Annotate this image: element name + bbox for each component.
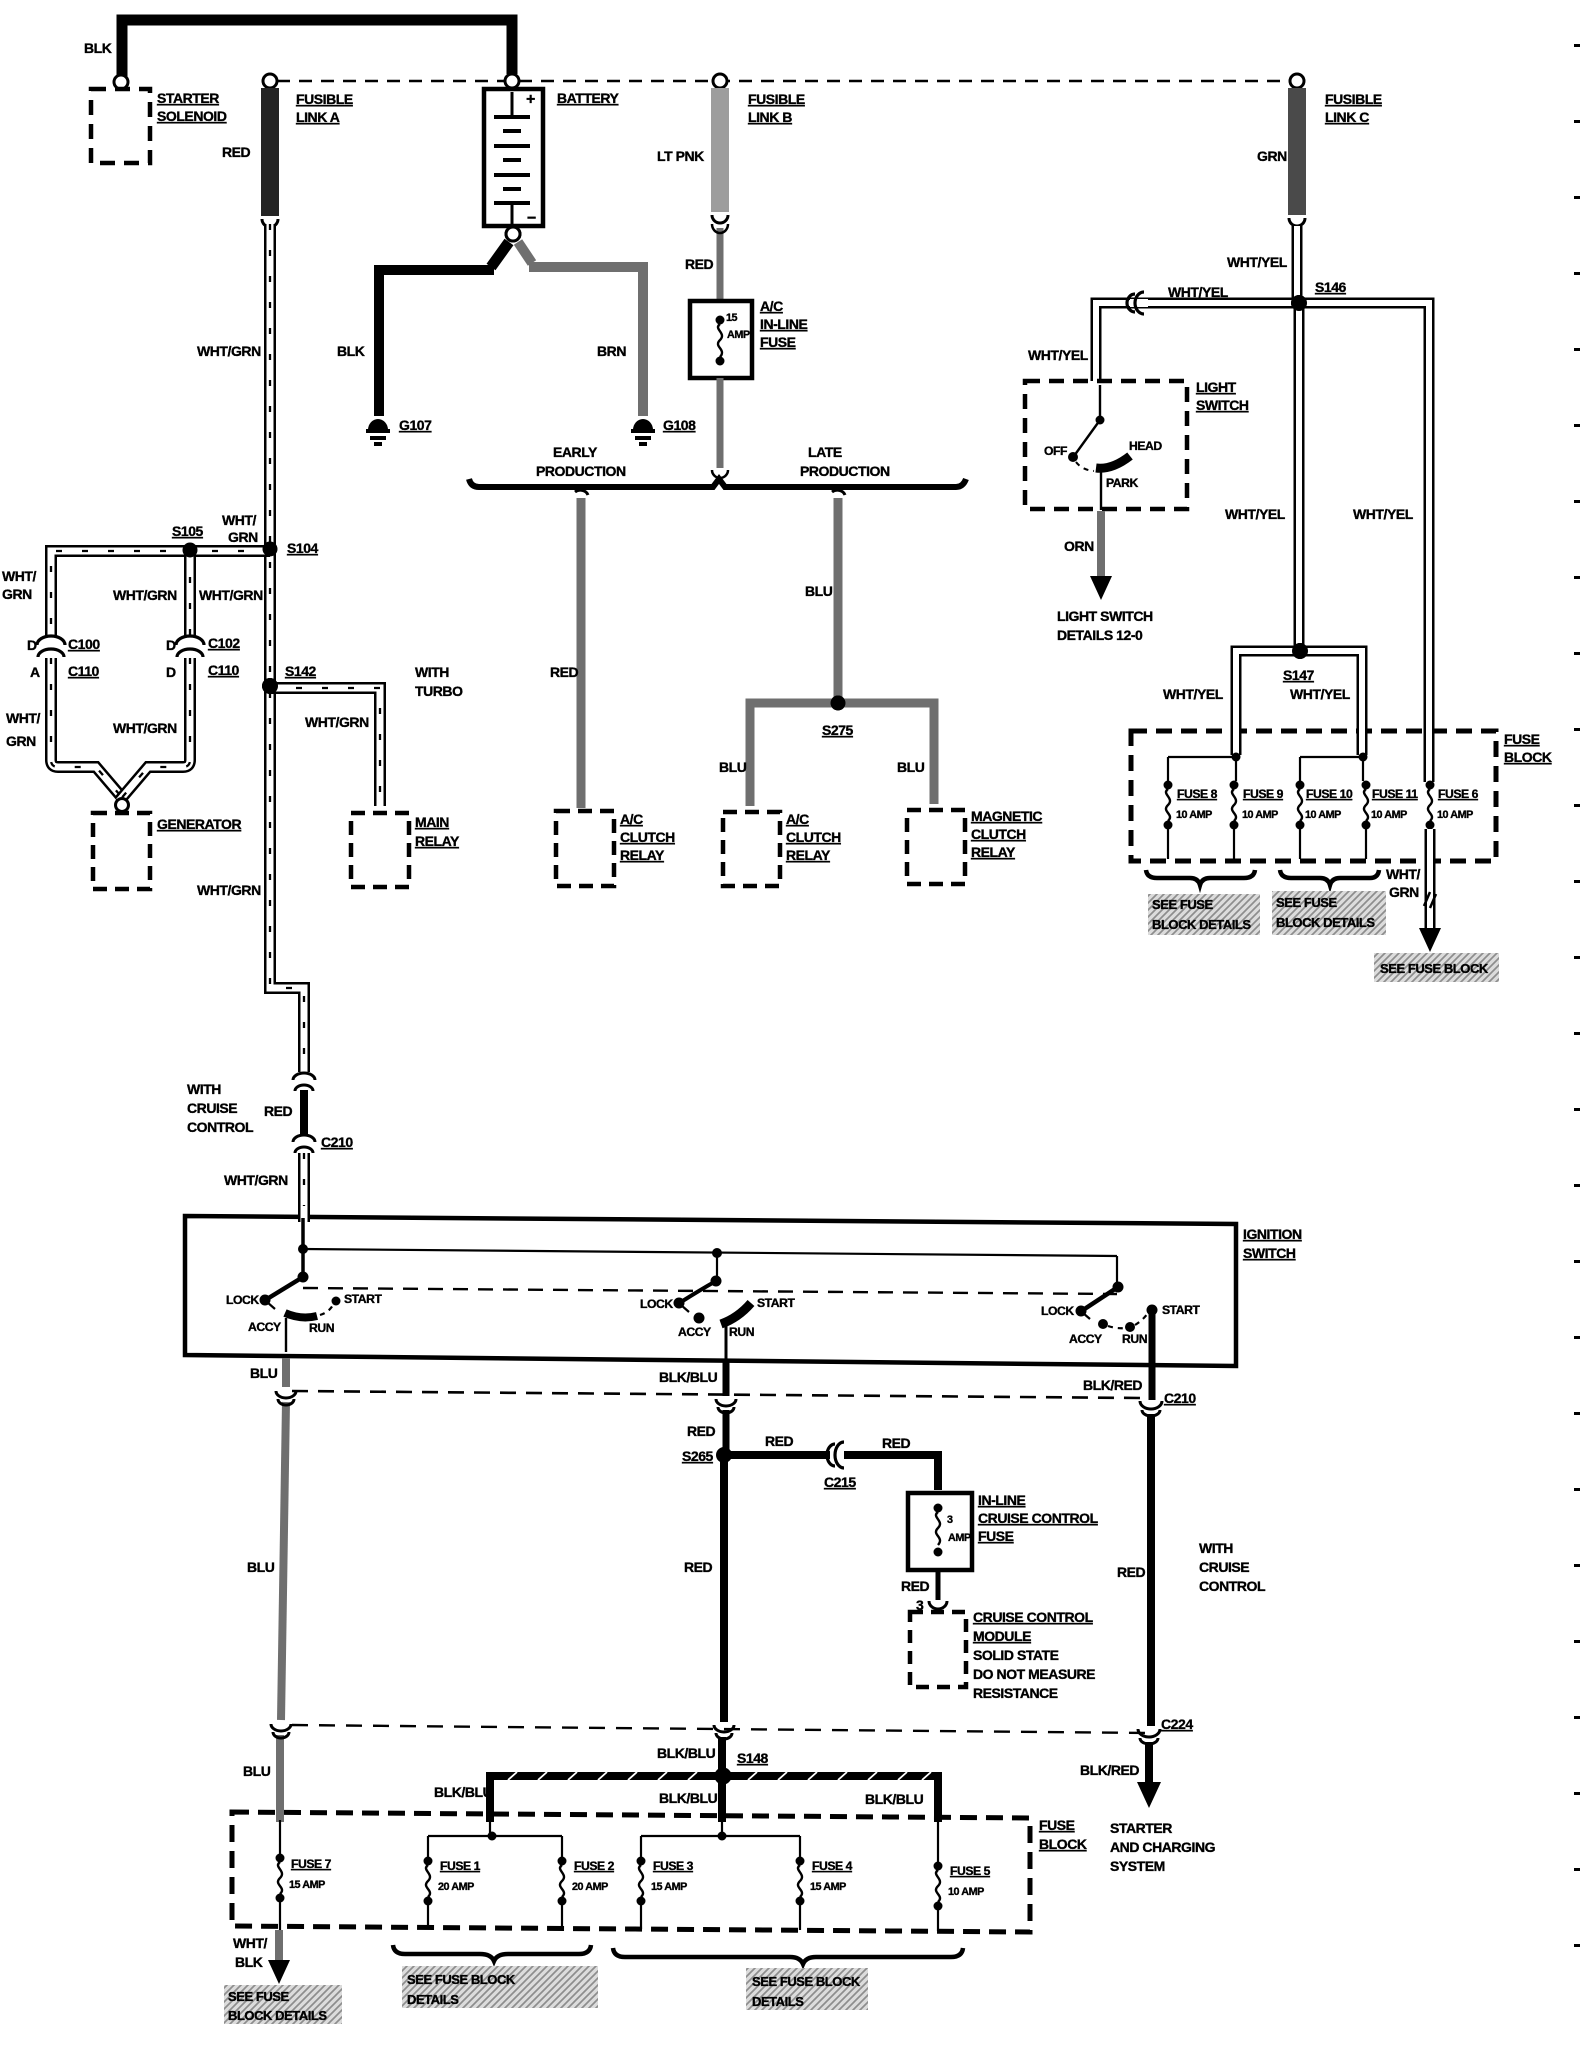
- svg-text:LINK B: LINK B: [748, 109, 792, 125]
- wire WHT/YEL link C down to S146: [1296, 226, 1298, 303]
- node S142: [262, 678, 278, 694]
- wire BLU S275 to magnetic clutch relay: [838, 703, 934, 804]
- svg-text:BLU: BLU: [719, 759, 747, 775]
- svg-text:WHT/: WHT/: [1386, 866, 1421, 882]
- connector C215: [827, 1442, 844, 1468]
- wire A/C fuse down to production bus: [717, 378, 724, 468]
- ignition switch 1 (left): [260, 1218, 341, 1352]
- light switch contacts: [1068, 385, 1130, 510]
- svg-text:LINK A: LINK A: [296, 109, 340, 125]
- svg-text:GRN: GRN: [228, 529, 258, 545]
- svg-text:RELAY: RELAY: [620, 847, 665, 863]
- svg-text:LINK C: LINK C: [1325, 109, 1369, 125]
- svg-text:STARTER: STARTER: [157, 90, 219, 106]
- svg-text:LOCK: LOCK: [1041, 1304, 1074, 1318]
- svg-text:S104: S104: [287, 540, 319, 556]
- svg-text:C210: C210: [321, 1134, 353, 1150]
- connector C210 (upper): [293, 1135, 315, 1153]
- svg-text:FUSE 10: FUSE 10: [1306, 787, 1353, 801]
- A/C in-line fuse: [690, 301, 752, 378]
- svg-text:15 AMP: 15 AMP: [289, 1879, 325, 1891]
- connector C102/C110 (right): [176, 636, 204, 657]
- svg-text:FUSE 9: FUSE 9: [1243, 787, 1284, 801]
- svg-text:BLOCK DETAILS: BLOCK DETAILS: [1276, 915, 1375, 930]
- wire WHT/GRN entry over box edge: [303, 1206, 305, 1222]
- svg-text:BLOCK: BLOCK: [1039, 1836, 1087, 1852]
- svg-text:LIGHT: LIGHT: [1196, 379, 1237, 395]
- svg-text:C215: C215: [824, 1474, 856, 1490]
- svg-text:SOLID STATE: SOLID STATE: [973, 1647, 1059, 1663]
- svg-text:START: START: [757, 1296, 795, 1310]
- svg-text:CLUTCH: CLUTCH: [971, 826, 1026, 842]
- ignition switch 2 (middle): [674, 1248, 752, 1360]
- starter solenoid: [91, 89, 150, 163]
- fuse 7: [276, 1820, 285, 1930]
- svg-text:FUSE: FUSE: [760, 334, 796, 350]
- svg-text:STARTER: STARTER: [1110, 1820, 1172, 1836]
- wire feed fuse 1 and fuse 2: [428, 1818, 562, 1857]
- node S142 (overlay): [262, 678, 278, 694]
- node S265: [716, 1447, 732, 1463]
- svg-text:SEE FUSE BLOCK: SEE FUSE BLOCK: [407, 1972, 516, 1987]
- svg-text:WHT/YEL: WHT/YEL: [1225, 506, 1286, 522]
- node S105: [183, 543, 198, 558]
- svg-text:BRN: BRN: [597, 343, 626, 359]
- svg-text:BLK/BLU: BLK/BLU: [434, 1784, 493, 1800]
- svg-text:20 AMP: 20 AMP: [438, 1881, 474, 1893]
- connector break on WHT/YEL horizontal: [1127, 292, 1148, 314]
- light switch box: [1025, 381, 1187, 509]
- svg-text:A/C: A/C: [760, 298, 783, 314]
- svg-text:WITH: WITH: [415, 664, 449, 680]
- fuse 6: [1426, 781, 1435, 830]
- wire BLK/BLU S148 down to fuses 3-4: [718, 1776, 726, 1816]
- svg-text:EARLY: EARLY: [553, 444, 598, 460]
- svg-text:RUN: RUN: [309, 1321, 334, 1335]
- connector break on RED at C224 line: [714, 1725, 734, 1739]
- svg-text:RUN: RUN: [1122, 1332, 1147, 1346]
- fuse 4: [796, 1857, 805, 1931]
- wire RED S265 to C215 to in-line fuse: [724, 1455, 938, 1490]
- wire WHT/GRN S104 to S105 to C100 loop left branch: [51, 551, 270, 636]
- wire ignition internal dashed line: [303, 1288, 1117, 1294]
- wire feed fuse 5: [937, 1818, 939, 1862]
- svg-text:DETAILS: DETAILS: [407, 1992, 459, 2007]
- wire WHT/GRN S105 down to C102: [189, 551, 191, 636]
- svg-text:15 AMP: 15 AMP: [651, 1881, 687, 1893]
- wire WHT/GRN S142 to main relay: [270, 688, 380, 806]
- svg-text:C102: C102: [208, 635, 240, 651]
- svg-text:WHT/GRN: WHT/GRN: [113, 587, 177, 603]
- connector break on BLK/RED at C224 line: [1138, 1729, 1160, 1744]
- svg-text:LT PNK: LT PNK: [657, 148, 704, 164]
- svg-text:FUSE 8: FUSE 8: [1177, 787, 1218, 801]
- svg-text:BLK: BLK: [235, 1954, 263, 1970]
- node fusible link C terminal: [1290, 74, 1304, 88]
- svg-text:RED: RED: [684, 1559, 713, 1575]
- svg-text:IN-LINE: IN-LINE: [978, 1492, 1026, 1508]
- wire BLK/RED ignition switch 3 output: [1137, 1310, 1161, 1808]
- wire WHT/BLK fuse 7 output arrow: [268, 1930, 290, 1984]
- svg-text:AND CHARGING: AND CHARGING: [1110, 1839, 1216, 1855]
- svg-text:WHT/YEL: WHT/YEL: [1290, 686, 1351, 702]
- svg-text:RED: RED: [550, 664, 579, 680]
- svg-text:20 AMP: 20 AMP: [572, 1881, 608, 1893]
- wire WHT/GRN fusible link A down to S104 and main run with jog: [270, 224, 304, 1072]
- svg-text:GRN: GRN: [1389, 884, 1419, 900]
- svg-text:CLUTCH: CLUTCH: [620, 829, 675, 845]
- wire BLK top feed (starter solenoid to battery): [122, 20, 512, 77]
- wire WHT/GRN C110 down to generator (left): [51, 658, 125, 801]
- svg-text:WHT/GRN: WHT/GRN: [224, 1172, 288, 1188]
- shaded note SEE FUSE BLOCK DETAILS (fuse 7): [224, 1985, 342, 2024]
- ignition switch box: [185, 1216, 1236, 1366]
- svg-text:WHT/GRN: WHT/GRN: [113, 720, 177, 736]
- svg-text:CRUISE: CRUISE: [187, 1100, 237, 1116]
- svg-text:BLOCK DETAILS: BLOCK DETAILS: [228, 2008, 327, 2023]
- svg-text:LIGHT SWITCH: LIGHT SWITCH: [1057, 608, 1153, 624]
- node S148 (overlay): [715, 1768, 732, 1785]
- svg-text:FUSE 5: FUSE 5: [950, 1864, 991, 1878]
- wire BLK/BLU S148 right branch to fuse 5: [723, 1772, 938, 1816]
- svg-text:CONTROL: CONTROL: [187, 1119, 254, 1135]
- shaded note SEE FUSE BLOCK DETAILS (fuses 1-2): [402, 1966, 598, 2008]
- svg-text:SWITCH: SWITCH: [1243, 1245, 1296, 1261]
- svg-text:CRUISE CONTROL: CRUISE CONTROL: [973, 1609, 1094, 1625]
- svg-text:BLK/BLU: BLK/BLU: [657, 1745, 716, 1761]
- svg-text:AMP: AMP: [727, 329, 750, 341]
- svg-text:FUSE 11: FUSE 11: [1372, 787, 1418, 801]
- svg-text:3: 3: [947, 1514, 953, 1526]
- wire RED fuse to cruise control module: [936, 1570, 941, 1600]
- svg-text:WITH: WITH: [187, 1081, 221, 1097]
- svg-text:G107: G107: [399, 417, 432, 433]
- svg-text:ORN: ORN: [1064, 538, 1094, 554]
- wire production bus: [469, 479, 966, 487]
- wire feed fuse 10 and fuse 11: [1300, 753, 1368, 782]
- svg-text:15: 15: [726, 312, 738, 324]
- svg-text:10 AMP: 10 AMP: [1305, 809, 1341, 821]
- wire ORN light switch output arrow: [1090, 511, 1112, 600]
- svg-text:BLU: BLU: [247, 1559, 275, 1575]
- svg-text:IN-LINE: IN-LINE: [760, 316, 808, 332]
- svg-text:WITH: WITH: [1199, 1540, 1233, 1556]
- node battery - terminal: [506, 227, 520, 241]
- svg-text:FUSE 1: FUSE 1: [440, 1859, 481, 1873]
- wire channel crossing fuse block edge (fuse 11 feed): [1361, 716, 1363, 755]
- svg-text:PRODUCTION: PRODUCTION: [536, 463, 626, 479]
- A/C clutch relay (late production): [723, 812, 780, 886]
- svg-text:RELAY: RELAY: [786, 847, 831, 863]
- svg-text:CONTROL: CONTROL: [1199, 1578, 1266, 1594]
- svg-text:WHT/YEL: WHT/YEL: [1028, 347, 1089, 363]
- svg-text:RED: RED: [687, 1423, 716, 1439]
- svg-text:SWITCH: SWITCH: [1196, 397, 1249, 413]
- fuse 8: [1164, 781, 1173, 860]
- svg-text:PRODUCTION: PRODUCTION: [800, 463, 890, 479]
- wire BLU S275 to A/C clutch relay (late): [750, 703, 838, 806]
- connector break on BLU at C224 line: [271, 1724, 291, 1738]
- wire ignition internal feed line: [303, 1249, 1117, 1285]
- svg-text:SEE FUSE: SEE FUSE: [1276, 895, 1337, 910]
- brace see fuse block details (fuses 3-5): [613, 1948, 963, 1964]
- svg-text:10 AMP: 10 AMP: [948, 1886, 984, 1898]
- fuse 2: [558, 1857, 567, 1930]
- wire WHT/YEL S147 left to fuse 9: [1236, 651, 1300, 753]
- node fusible link A terminal: [263, 74, 277, 88]
- svg-text:BLU: BLU: [805, 583, 833, 599]
- svg-text:WHT/: WHT/: [2, 568, 37, 584]
- fusible link C: [1288, 88, 1306, 226]
- svg-text:DETAILS 12-0: DETAILS 12-0: [1057, 627, 1143, 643]
- magnetic clutch relay: [907, 810, 965, 884]
- svg-text:G108: G108: [663, 417, 696, 433]
- main relay: [351, 813, 409, 887]
- node S104: [263, 542, 278, 557]
- svg-text:START: START: [1162, 1303, 1200, 1317]
- shaded note SEE FUSE BLOCK DETAILS (right): [1272, 891, 1386, 935]
- svg-text:WHT/GRN: WHT/GRN: [199, 587, 263, 603]
- svg-text:BATTERY: BATTERY: [557, 90, 620, 106]
- shaded note SEE FUSE BLOCK DETAILS (left): [1148, 894, 1260, 935]
- svg-text:HEAD: HEAD: [1129, 439, 1162, 453]
- svg-text:LATE: LATE: [808, 444, 842, 460]
- svg-text:BLOCK: BLOCK: [1504, 749, 1552, 765]
- svg-text:D: D: [27, 637, 37, 653]
- svg-text:10 AMP: 10 AMP: [1371, 809, 1407, 821]
- svg-text:A/C: A/C: [620, 811, 643, 827]
- svg-text:WHT/YEL: WHT/YEL: [1163, 686, 1224, 702]
- svg-text:S275: S275: [822, 722, 854, 738]
- wire BLU crossing over lower fuse block edge: [276, 1806, 284, 1822]
- ignition switch 3 (right): [1076, 1282, 1158, 1333]
- wire WHT/YEL S146 down to S147: [1298, 303, 1300, 651]
- svg-text:RED: RED: [222, 144, 251, 160]
- svg-text:AMP: AMP: [948, 1532, 971, 1544]
- fusible link A: [261, 88, 279, 227]
- wire BLU ignition switch 1 output: [280, 1358, 286, 1818]
- svg-text:WHT/GRN: WHT/GRN: [197, 882, 261, 898]
- svg-text:FUSIBLE: FUSIBLE: [1325, 91, 1382, 107]
- node battery - terminal (overlay): [506, 227, 520, 241]
- svg-text:SEE FUSE BLOCK: SEE FUSE BLOCK: [752, 1974, 861, 1989]
- svg-text:OFF: OFF: [1044, 444, 1067, 458]
- ground G108: [631, 419, 655, 444]
- svg-text:GRN: GRN: [6, 733, 36, 749]
- svg-text:MAIN: MAIN: [415, 814, 449, 830]
- node starter solenoid terminal: [114, 75, 128, 89]
- svg-text:S148: S148: [737, 1750, 769, 1766]
- svg-text:D: D: [166, 637, 176, 653]
- wire BLK/BLU crossings over lower fuse block edge: [490, 1806, 938, 1822]
- svg-text:START: START: [344, 1292, 382, 1306]
- svg-text:BLK/BLU: BLK/BLU: [865, 1791, 924, 1807]
- svg-text:MODULE: MODULE: [973, 1628, 1031, 1644]
- wire WHT/YEL S147 right to fuse 11: [1300, 651, 1362, 753]
- svg-text:FUSIBLE: FUSIBLE: [748, 91, 805, 107]
- connector break on BLK/RED at C210 line: [1140, 1401, 1162, 1416]
- svg-text:GRN: GRN: [2, 586, 32, 602]
- svg-text:FUSE 7: FUSE 7: [291, 1857, 332, 1871]
- svg-text:S147: S147: [1283, 667, 1315, 683]
- svg-text:WHT/: WHT/: [233, 1935, 268, 1951]
- cruise control module: [910, 1612, 966, 1687]
- svg-text:TURBO: TURBO: [415, 683, 463, 699]
- svg-text:S265: S265: [682, 1448, 714, 1464]
- wire dashed connector line C224: [292, 1725, 1146, 1733]
- connector C100/C110 (left): [37, 636, 65, 657]
- in-line cruise control fuse: [908, 1493, 972, 1570]
- wire BLK/BLU S148 left branch to fuses 1-2: [490, 1772, 723, 1816]
- svg-text:RED: RED: [1117, 1564, 1146, 1580]
- node S146 (overlay): [1291, 295, 1307, 311]
- node S147 (overlay): [1292, 643, 1308, 659]
- svg-text:FUSE 2: FUSE 2: [574, 1859, 615, 1873]
- wire channel crossing fuse block edge (fuse 6 feed): [1428, 716, 1430, 782]
- svg-text:ACCY: ACCY: [678, 1325, 711, 1339]
- svg-text:RED: RED: [765, 1433, 794, 1449]
- svg-text:GRN: GRN: [1257, 148, 1287, 164]
- svg-text:LOCK: LOCK: [226, 1293, 259, 1307]
- svg-text:WHT/: WHT/: [6, 710, 41, 726]
- svg-text:BLK/BLU: BLK/BLU: [659, 1369, 718, 1385]
- svg-text:10 AMP: 10 AMP: [1242, 809, 1278, 821]
- svg-text:FUSE: FUSE: [978, 1528, 1014, 1544]
- svg-text:DETAILS: DETAILS: [752, 1994, 804, 2009]
- A/C clutch relay (early production): [556, 811, 614, 886]
- svg-text:RUN: RUN: [729, 1325, 754, 1339]
- ground G107: [366, 419, 390, 444]
- shaded note SEE FUSE BLOCK: [1374, 953, 1499, 982]
- svg-text:C224: C224: [1161, 1716, 1193, 1732]
- node battery + terminal: [505, 74, 519, 88]
- svg-text:PARK: PARK: [1106, 476, 1138, 490]
- fusible link B: [711, 88, 729, 223]
- svg-text:FUSE: FUSE: [1504, 731, 1540, 747]
- svg-text:BLK: BLK: [84, 40, 112, 56]
- svg-text:+: +: [526, 91, 535, 108]
- wire channel crossing fuse block edge (fuse 9 feed): [1235, 716, 1237, 755]
- fuse 11: [1362, 781, 1371, 860]
- node S148: [715, 1768, 732, 1785]
- fuse 5: [934, 1862, 943, 1932]
- svg-text:MAGNETIC: MAGNETIC: [971, 808, 1042, 824]
- shaded note SEE FUSE BLOCK DETAILS (fuses 3-5): [746, 1968, 868, 2010]
- svg-text:RED: RED: [901, 1578, 930, 1594]
- svg-text:SOLENOID: SOLENOID: [157, 108, 227, 124]
- node S146: [1291, 295, 1307, 311]
- svg-text:C100: C100: [68, 636, 100, 652]
- svg-text:RED: RED: [264, 1103, 293, 1119]
- wire WHT/YEL S146 left to light switch: [1096, 303, 1299, 381]
- svg-text:10 AMP: 10 AMP: [1437, 809, 1473, 821]
- fuse 3: [637, 1857, 646, 1930]
- svg-text:GENERATOR: GENERATOR: [157, 816, 241, 832]
- svg-text:S105: S105: [172, 523, 204, 539]
- connector break on BLU at C210 line: [276, 1391, 296, 1405]
- wire feed fuse 8 and fuse 9: [1168, 753, 1241, 782]
- svg-text:RELAY: RELAY: [415, 833, 460, 849]
- fuse block (upper): [1131, 731, 1496, 861]
- node S147: [1292, 643, 1308, 659]
- svg-text:SEE FUSE: SEE FUSE: [228, 1989, 289, 2004]
- wire WHT/GRN fuse 6 output arrow: [1419, 829, 1441, 952]
- svg-text:S146: S146: [1315, 279, 1347, 295]
- svg-text:CRUISE CONTROL: CRUISE CONTROL: [978, 1510, 1099, 1526]
- wire dashed connector line C210: [292, 1391, 1141, 1398]
- fuse block (lower): [232, 1812, 1030, 1932]
- svg-text:15 AMP: 15 AMP: [810, 1881, 846, 1893]
- node fusible link B terminal: [713, 74, 727, 88]
- svg-text:WHT/GRN: WHT/GRN: [197, 343, 261, 359]
- fuse 9: [1230, 781, 1239, 860]
- fuse 1: [424, 1857, 433, 1929]
- svg-text:CRUISE: CRUISE: [1199, 1559, 1249, 1575]
- brace see fuse block details (fuses 10-11): [1280, 870, 1379, 885]
- svg-text:IGNITION: IGNITION: [1243, 1226, 1302, 1242]
- svg-text:FUSIBLE: FUSIBLE: [296, 91, 353, 107]
- connector break on WHT/GRN above C210: [293, 1073, 315, 1091]
- wire WHT/GRN C210 down into ignition switch: [303, 1153, 305, 1218]
- wire BRN battery to ground G108: [518, 242, 643, 416]
- svg-text:BLK/RED: BLK/RED: [1083, 1377, 1142, 1393]
- svg-text:A/C: A/C: [786, 811, 809, 827]
- svg-text:SYSTEM: SYSTEM: [1110, 1858, 1165, 1874]
- svg-text:FUSE 6: FUSE 6: [1438, 787, 1479, 801]
- wire BLK battery to ground G107: [379, 242, 509, 416]
- node S275 (overlay): [831, 696, 846, 711]
- svg-text:ACCY: ACCY: [1069, 1332, 1102, 1346]
- svg-text:SEE FUSE: SEE FUSE: [1152, 897, 1213, 912]
- svg-text:RED: RED: [882, 1435, 911, 1451]
- connector break on BLK/BLU at C210 line: [716, 1399, 736, 1413]
- svg-text:DO NOT MEASURE: DO NOT MEASURE: [973, 1666, 1095, 1682]
- node S275: [831, 696, 846, 711]
- svg-text:RED: RED: [685, 256, 714, 272]
- brace see fuse block details (fuses 1-2): [393, 1945, 591, 1961]
- fuse 10: [1296, 781, 1305, 860]
- svg-text:WHT/: WHT/: [222, 512, 257, 528]
- svg-text:−: −: [527, 210, 536, 227]
- svg-text:WHT/YEL: WHT/YEL: [1353, 506, 1414, 522]
- page margin tick marks (right edge): [1574, 44, 1580, 2020]
- svg-text:RESISTANCE: RESISTANCE: [973, 1685, 1058, 1701]
- svg-text:WHT/YEL: WHT/YEL: [1168, 284, 1229, 300]
- wire RED segment above C210 (with cruise control): [300, 1090, 308, 1136]
- svg-text:BLOCK DETAILS: BLOCK DETAILS: [1152, 917, 1251, 932]
- wire feed fuse 3 and fuse 4: [641, 1818, 800, 1857]
- generator: [93, 813, 150, 889]
- svg-text:D: D: [166, 664, 176, 680]
- svg-text:RELAY: RELAY: [971, 844, 1016, 860]
- svg-text:BLU: BLU: [243, 1763, 271, 1779]
- wire BLK/BLU ignition switch 2 output to S265: [723, 1360, 730, 1450]
- battery: [484, 89, 543, 227]
- svg-text:WHT/YEL: WHT/YEL: [1227, 254, 1288, 270]
- svg-text:10 AMP: 10 AMP: [1176, 809, 1212, 821]
- svg-text:BLK: BLK: [337, 343, 365, 359]
- svg-text:BLK/BLU: BLK/BLU: [659, 1790, 718, 1806]
- svg-text:CLUTCH: CLUTCH: [786, 829, 841, 845]
- wire RED link B to A/C fuse: [717, 228, 724, 300]
- svg-text:LOCK: LOCK: [640, 1297, 673, 1311]
- svg-text:C210: C210: [1164, 1390, 1196, 1406]
- svg-text:C110: C110: [208, 662, 240, 678]
- svg-text:BLU: BLU: [897, 759, 925, 775]
- node generator terminal: [116, 799, 129, 812]
- wire RED bus to A/C clutch relay (early): [575, 490, 588, 808]
- svg-text:SEE FUSE BLOCK: SEE FUSE BLOCK: [1380, 961, 1489, 976]
